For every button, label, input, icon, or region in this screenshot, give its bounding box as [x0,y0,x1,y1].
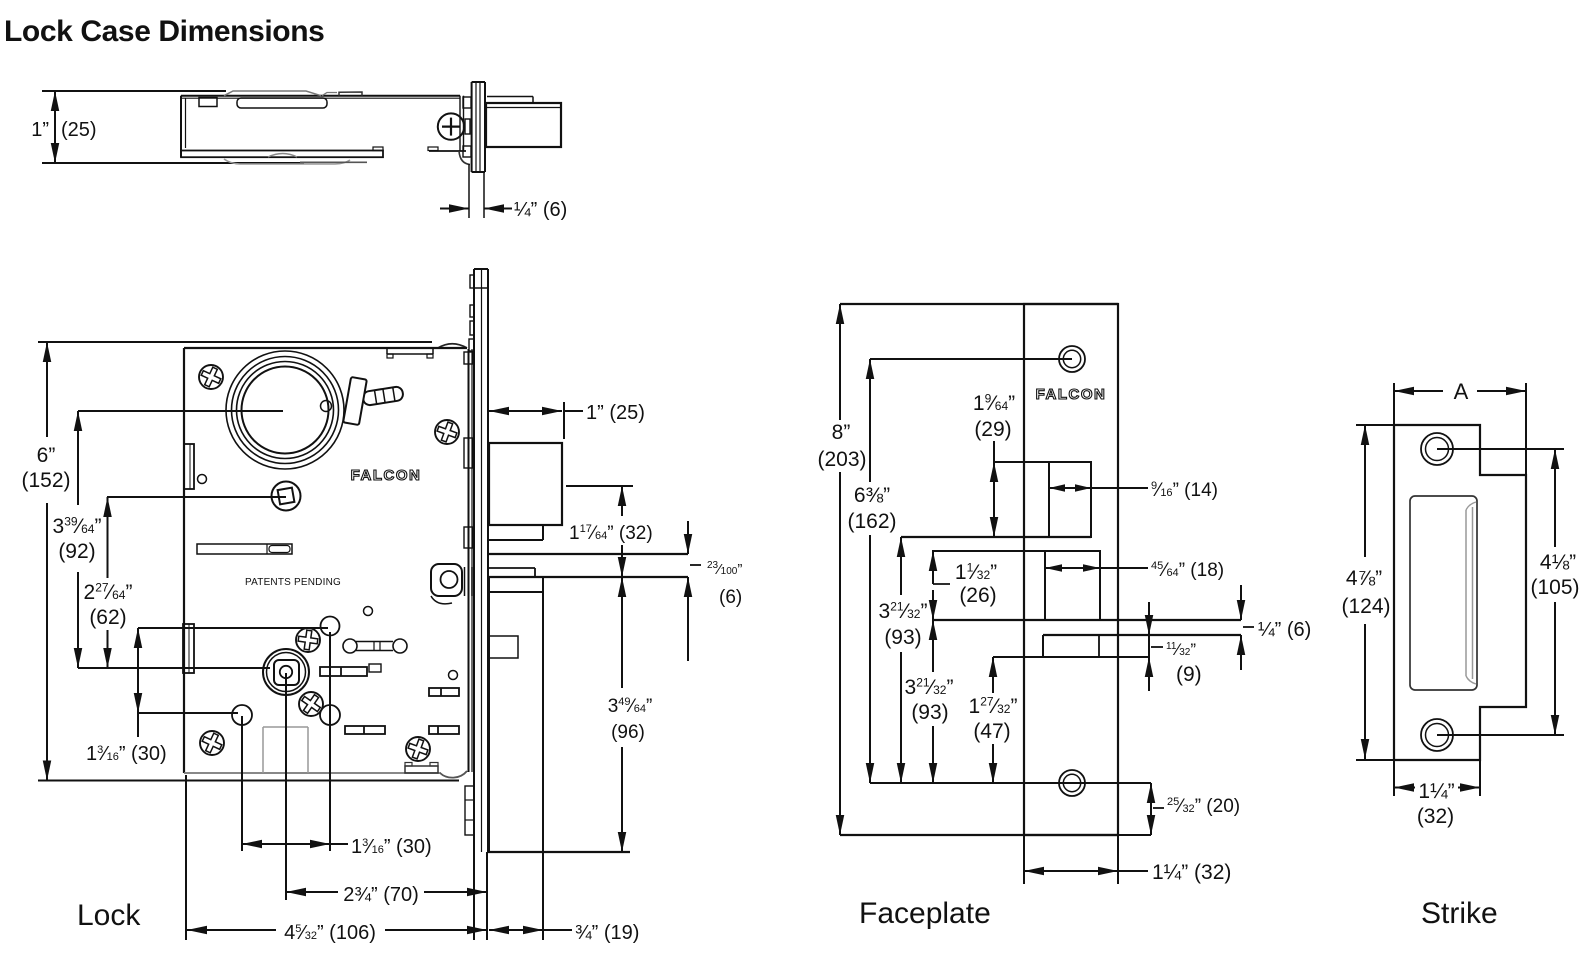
svg-text:2¾” (70): 2¾” (70) [343,884,419,906]
svg-text:¼” (6): ¼” (6) [514,199,567,221]
svg-text:¼” (6): ¼” (6) [1258,619,1311,641]
svg-text:A: A [1454,379,1469,404]
svg-text:227⁄64”: 227⁄64” [84,581,133,604]
svg-text:(47): (47) [973,720,1010,743]
svg-text:FALCON: FALCON [1036,386,1107,403]
svg-text:Lock: Lock [77,899,141,932]
svg-text:(62): (62) [89,606,126,629]
svg-text:(105): (105) [1530,576,1579,599]
svg-text:(25): (25) [61,119,97,141]
svg-text:(152): (152) [21,469,70,492]
svg-text:339⁄64”: 339⁄64” [53,515,102,538]
svg-text:(9): (9) [1176,663,1202,686]
svg-text:1”: 1” [31,119,49,141]
svg-text:8”: 8” [832,421,851,444]
svg-text:FALCON: FALCON [351,467,422,484]
svg-text:1¼” (32): 1¼” (32) [1152,861,1231,884]
svg-text:PATENTS PENDING: PATENTS PENDING [245,577,341,588]
svg-text:Strike: Strike [1421,897,1498,930]
svg-text:4⅛”: 4⅛” [1540,551,1576,574]
svg-text:Lock Case Dimensions: Lock Case Dimensions [4,15,324,48]
svg-text:6⅜”: 6⅜” [854,484,890,507]
svg-text:¾” (19): ¾” (19) [575,922,639,944]
svg-text:1¼”: 1¼” [1418,780,1454,803]
svg-text:(93): (93) [884,626,921,649]
svg-text:(203): (203) [817,448,866,471]
svg-text:(93): (93) [911,701,948,724]
svg-text:(92): (92) [58,540,95,563]
svg-text:6”: 6” [37,444,56,467]
svg-text:(32): (32) [1417,805,1454,828]
svg-text:349⁄64”: 349⁄64” [608,696,653,717]
svg-text:4⅞”: 4⅞” [1346,567,1382,590]
svg-text:19⁄64”: 19⁄64” [973,392,1015,415]
svg-text:(6): (6) [719,587,742,608]
svg-text:127⁄32”: 127⁄32” [969,695,1018,718]
svg-text:(96): (96) [611,722,645,743]
svg-text:321⁄32”: 321⁄32” [879,600,928,623]
svg-text:11⁄32”: 11⁄32” [955,561,997,584]
svg-text:(26): (26) [959,584,996,607]
svg-text:1” (25): 1” (25) [586,402,645,424]
svg-text:Faceplate: Faceplate [859,897,991,930]
svg-text:(162): (162) [847,510,896,533]
svg-text:321⁄32”: 321⁄32” [905,676,954,699]
svg-text:(29): (29) [974,418,1011,441]
svg-text:(124): (124) [1341,595,1390,618]
